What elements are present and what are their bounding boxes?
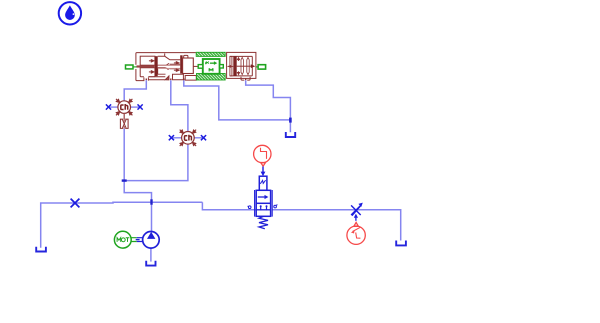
wire junction A to pump junction — [124, 181, 151, 203]
tank T2 (left) — [36, 247, 46, 252]
arrows left section — [149, 60, 179, 74]
spool bar 2 — [180, 55, 182, 73]
green hatch band bottom — [197, 74, 226, 81]
tank T1 (valve drain) — [286, 132, 295, 137]
wire valve portB to Ch2 — [171, 80, 188, 131]
junction dot A — [122, 179, 127, 181]
inner left wall — [230, 56, 232, 76]
signal gauge relief — [254, 145, 271, 166]
port A right wall and mid bottom tray — [147, 77, 149, 80]
Ch1 component — [106, 99, 143, 129]
shaft — [131, 238, 142, 242]
relief valve T marks — [260, 205, 268, 210]
pump — [143, 232, 160, 249]
center arrows — [227, 65, 231, 68]
middle lower chamber bottom — [158, 68, 166, 74]
wire valve portC to drain tank — [184, 80, 291, 120]
wire pump to tank — [150, 248, 152, 262]
outer outline — [136, 53, 196, 65]
tank T4 (right) — [396, 241, 406, 246]
wire main line to relief valve — [202, 202, 256, 210]
wire Ch2 to junction A — [124, 144, 188, 180]
port D brackets — [241, 77, 250, 80]
tank T3 (pump) — [146, 261, 155, 266]
green control box — [203, 59, 220, 74]
port stubs — [146, 79, 247, 81]
junction dot pump — [150, 199, 152, 204]
motor — [114, 231, 131, 248]
middle top step and bevel — [158, 53, 181, 59]
wire valve portD to drain tank — [246, 80, 291, 132]
spool center box — [183, 58, 194, 74]
wire main line left — [41, 202, 203, 247]
wedge before port B — [165, 76, 169, 80]
relief valve spring — [259, 216, 268, 228]
gallery box between B and C — [173, 74, 184, 80]
spool bar 1 — [155, 56, 158, 76]
relief valve — [255, 176, 273, 216]
right green connector — [258, 65, 266, 69]
spring pencils — [241, 57, 243, 74]
centerline — [237, 65, 252, 67]
wire relief valve to right tank — [272, 210, 400, 241]
junction dot drain — [289, 118, 292, 123]
wire pump to junction — [151, 202, 153, 231]
variable throttle right — [351, 205, 361, 215]
body outline left+middle — [136, 53, 196, 81]
relief valve port marks — [248, 205, 278, 209]
signal gauge right — [347, 222, 365, 244]
left green connector — [126, 65, 134, 69]
plugged port X left — [71, 199, 80, 208]
inner chamber lower — [140, 68, 155, 77]
arrow up into throttle — [355, 217, 357, 221]
green hatch band top — [196, 52, 225, 56]
orifice under Ch1 — [120, 119, 128, 128]
inner chamber upper — [140, 56, 155, 65]
middle channel lines — [158, 65, 167, 68]
spring section — [227, 52, 256, 78]
Ch2 component — [169, 130, 206, 146]
wire Ch1 to junction A — [123, 129, 125, 181]
pressure channel fill left — [137, 65, 155, 67]
wire valve portA to Ch1 — [124, 80, 146, 101]
fluid icon — [59, 2, 81, 24]
spool end bar — [233, 56, 236, 76]
arrow down into relief valve — [262, 167, 264, 173]
